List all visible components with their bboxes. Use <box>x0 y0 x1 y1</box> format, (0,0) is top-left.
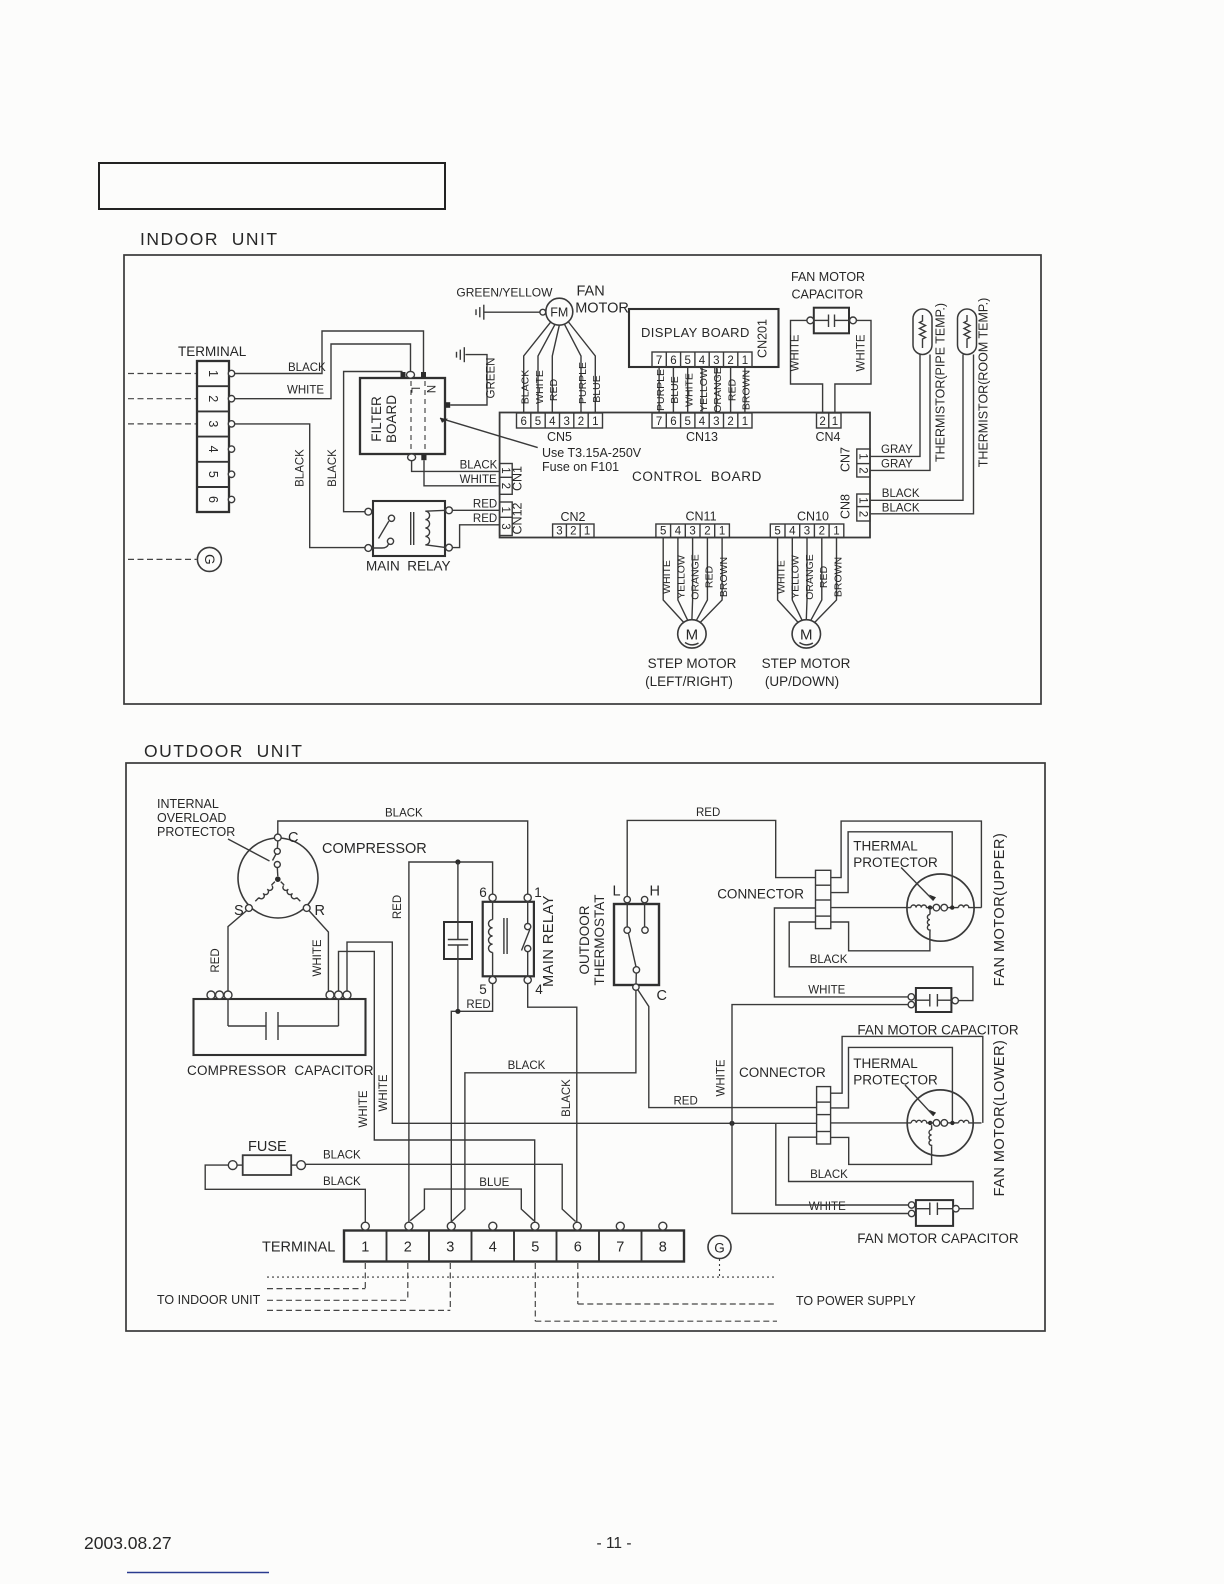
svg-text:CN1: CN1 <box>511 466 525 491</box>
svg-text:WHITE: WHITE <box>312 939 324 976</box>
wire BLACK compressor C to relay pin1 <box>278 821 528 894</box>
svg-text:INTERNAL: INTERNAL <box>157 797 219 811</box>
compressor capacitor C2 <box>187 991 374 1078</box>
svg-text:5: 5 <box>206 471 220 478</box>
relay coil core <box>410 512 412 545</box>
dashed row terminal1 to indoor <box>267 1288 365 1290</box>
dashed row terminal5 to power <box>535 1320 777 1322</box>
wire BLACK fuse to terminal1 <box>205 1165 365 1222</box>
svg-text:WHITE: WHITE <box>358 1090 370 1127</box>
svg-text:FM: FM <box>550 305 568 319</box>
svg-text:- 11 -: - 11 - <box>596 1535 631 1552</box>
relay switch contacts <box>388 515 394 521</box>
control board U1 <box>500 413 870 538</box>
svg-text:GRAY: GRAY <box>881 459 913 471</box>
dashed lead into G <box>128 558 197 560</box>
step motor M2 up/down <box>762 620 851 689</box>
svg-text:BLUE: BLUE <box>669 376 681 403</box>
fan motor capacitor C5 (lower) <box>857 1200 1019 1246</box>
wire lower connector pin3 to fan motor main <box>831 1122 908 1124</box>
svg-text:RED: RED <box>473 499 497 511</box>
svg-text:OVERLOAD: OVERLOAD <box>157 811 226 825</box>
wire RED terminal2 to relay pin6 <box>409 862 493 1223</box>
svg-text:6: 6 <box>670 355 676 367</box>
svg-text:(UP/DOWN): (UP/DOWN) <box>765 674 839 689</box>
pointer note to filter board <box>440 418 538 447</box>
svg-text:6: 6 <box>574 1240 582 1256</box>
compressor MC1 <box>234 830 427 919</box>
svg-text:3: 3 <box>206 420 220 427</box>
svg-text:TERMINAL: TERMINAL <box>262 1240 335 1256</box>
relay pin 6 <box>489 894 496 901</box>
fan motor capacitor C4 (upper) <box>857 988 1019 1038</box>
fuse F1 <box>228 1139 305 1175</box>
svg-text:CN4: CN4 <box>815 430 840 444</box>
pointer thermal protector lower <box>905 1085 934 1116</box>
wire lower connector pin4 to fan aux winding <box>831 1137 932 1164</box>
thermostat pin H <box>641 896 647 902</box>
svg-text:OUTDOOR UNIT: OUTDOOR UNIT <box>144 741 304 761</box>
capacitor terminals right <box>326 991 334 999</box>
wire BLACK terminal1 to filter N <box>235 331 424 374</box>
svg-text:2: 2 <box>819 526 825 538</box>
outdoor thermostat S1 <box>577 884 667 1005</box>
wire WHITE to lower fan capacitor <box>732 1123 908 1213</box>
wire upper connector pin2 to thermal protector <box>831 832 952 908</box>
svg-text:4: 4 <box>206 446 220 453</box>
terminal block TB1 (indoor) <box>178 344 247 512</box>
wire BLACK CN8-2 to room thermistor <box>870 355 974 514</box>
wire RED display2 to CN13-2 <box>730 367 732 413</box>
wire lower connector pin2 to thermal protector <box>831 1047 953 1123</box>
svg-text:RED: RED <box>466 999 490 1011</box>
svg-text:YELLOW: YELLOW <box>790 555 802 599</box>
relay coil <box>425 511 429 545</box>
connector CN5 <box>517 413 603 444</box>
svg-text:5: 5 <box>660 526 666 538</box>
svg-text:5: 5 <box>684 416 690 428</box>
dashed earth drop from G <box>719 1259 721 1277</box>
wire YELLOW CN11-4 <box>678 538 688 621</box>
filter junction square left-top <box>401 372 406 378</box>
wire RED thermostat switch to lower connector <box>638 990 817 1108</box>
svg-text:FAN MOTOR CAPACITOR: FAN MOTOR CAPACITOR <box>857 1231 1019 1246</box>
svg-text:BLACK: BLACK <box>882 502 920 514</box>
svg-text:2: 2 <box>578 416 584 428</box>
svg-text:INDOOR UNIT: INDOOR UNIT <box>140 229 279 249</box>
svg-text:PURPLE: PURPLE <box>577 362 589 404</box>
svg-text:WHITE: WHITE <box>534 370 546 404</box>
svg-text:2: 2 <box>206 395 220 402</box>
junction white distribution <box>729 1121 734 1126</box>
svg-text:3: 3 <box>713 416 719 428</box>
svg-text:BLACK: BLACK <box>385 808 423 820</box>
wire GREEN/YELLOW earth to FM <box>485 311 540 313</box>
terminal screws 1-8 <box>361 1222 369 1230</box>
junction aux tap <box>928 905 932 909</box>
svg-text:PROTECTOR: PROTECTOR <box>157 825 235 839</box>
svg-text:THERMAL: THERMAL <box>853 839 918 854</box>
wire BLACK upper connector pin4 to capacitor <box>789 922 973 1001</box>
wire fan lead RED CN5-4 <box>552 325 559 412</box>
wire GRAY CN7-1 to pipe thermistor <box>870 355 920 457</box>
svg-text:FAN MOTOR: FAN MOTOR <box>791 270 865 284</box>
svg-text:TO POWER SUPPLY: TO POWER SUPPLY <box>796 1294 916 1308</box>
wire WHITE to upper fan capacitor <box>732 1005 908 1124</box>
svg-text:CN8: CN8 <box>839 494 853 519</box>
wire RED CN11-2 <box>696 538 707 621</box>
svg-text:5: 5 <box>774 526 780 538</box>
connector CN8 <box>839 494 871 521</box>
step motor M1 left/right <box>645 620 737 689</box>
wire BLACK lower connector pin4 to capacitor <box>789 1137 974 1209</box>
svg-text:PROTECTOR: PROTECTOR <box>853 855 938 870</box>
svg-text:PURPLE: PURPLE <box>655 369 667 411</box>
svg-text:BLACK: BLACK <box>327 449 339 487</box>
wire fan lead WHITE CN5-5 <box>538 325 555 413</box>
svg-text:FAN: FAN <box>577 284 605 300</box>
svg-text:DISPLAY BOARD: DISPLAY BOARD <box>641 325 750 340</box>
junction capacitor to red <box>455 1009 460 1014</box>
connector CN2 <box>553 510 594 538</box>
wire WHITE cap to CN4-1 <box>835 320 871 413</box>
svg-text:7: 7 <box>656 416 662 428</box>
wire ORANGE display3 to CN13-3 <box>715 367 717 413</box>
svg-text:YELLOW: YELLOW <box>698 368 710 412</box>
fan motor capacitor C1 (indoor) <box>791 270 865 333</box>
svg-text:CN5: CN5 <box>547 430 572 444</box>
dashed drop terminal5 <box>534 1263 536 1321</box>
svg-text:WHITE: WHITE <box>790 334 802 371</box>
wire BLACK fuse to terminal6 <box>306 1164 576 1221</box>
display board connector strip <box>652 352 752 367</box>
compressor winding to S <box>255 882 275 902</box>
svg-text:BLACK: BLACK <box>323 1176 361 1188</box>
svg-text:CN7: CN7 <box>839 447 853 472</box>
svg-text:RED: RED <box>726 378 738 401</box>
svg-text:CN11: CN11 <box>685 510 716 524</box>
wire BLACK filter L-bottom to CN1-1 <box>412 461 499 472</box>
svg-text:BROWN: BROWN <box>833 557 845 597</box>
internal overload protector contacts <box>274 848 280 854</box>
svg-text:FAN MOTOR(LOWER): FAN MOTOR(LOWER) <box>992 1040 1008 1197</box>
dashed row terminal6 to power <box>578 1303 777 1305</box>
wire lower connector pin1 to fan motor right <box>831 1036 983 1123</box>
outdoor unit border <box>126 763 1045 1331</box>
svg-text:RED: RED <box>696 807 720 819</box>
wire WHITE display5 to CN13-5 <box>687 367 689 413</box>
svg-text:CN201: CN201 <box>756 319 770 358</box>
wire BROWN CN10-1 <box>815 538 837 623</box>
svg-text:BLACK: BLACK <box>561 1079 573 1117</box>
wire YELLOW display4 to CN13-4 <box>701 367 703 413</box>
svg-text:C: C <box>657 988 667 1004</box>
svg-text:THERMISTOR(ROOM TEMP.): THERMISTOR(ROOM TEMP.) <box>977 298 991 467</box>
wire fan lead PURPLE CN5-2 <box>565 324 582 412</box>
svg-text:4: 4 <box>699 416 706 428</box>
main relay K1 (indoor) <box>365 501 453 574</box>
terminal block TB2 (outdoor) <box>262 1222 684 1261</box>
svg-text:WHITE: WHITE <box>661 560 673 594</box>
svg-text:WHITE: WHITE <box>460 474 497 486</box>
header empty box <box>99 163 445 209</box>
svg-text:Fuse on F101: Fuse on F101 <box>542 460 619 474</box>
svg-text:H: H <box>649 884 659 900</box>
svg-text:M: M <box>800 627 813 644</box>
dashed leads into terminals 1-3 <box>128 373 196 375</box>
wire WHITE capacitor to fan motor capacitors (common) <box>347 942 817 1123</box>
svg-text:2: 2 <box>499 483 511 489</box>
svg-text:WHITE: WHITE <box>809 1201 846 1213</box>
svg-text:BLUE: BLUE <box>479 1177 509 1189</box>
svg-text:5: 5 <box>479 982 487 997</box>
svg-text:2: 2 <box>727 416 733 428</box>
svg-text:1: 1 <box>206 370 220 377</box>
wire BLACK CN8-1 to room thermistor <box>870 355 963 501</box>
svg-text:8: 8 <box>659 1240 667 1256</box>
junction pin2 feed <box>950 905 954 909</box>
svg-text:CONTROL BOARD: CONTROL BOARD <box>632 469 762 484</box>
svg-text:4: 4 <box>699 355 706 367</box>
connector CN4 <box>815 413 841 444</box>
svg-text:THERMISTOR(PIPE TEMP.): THERMISTOR(PIPE TEMP.) <box>934 303 948 462</box>
svg-text:BLACK: BLACK <box>882 488 920 500</box>
dashed drop terminal6 <box>577 1263 579 1304</box>
relay pin 5 <box>489 976 496 983</box>
svg-text:L: L <box>409 387 421 394</box>
svg-text:5: 5 <box>531 1240 539 1256</box>
svg-text:CN13: CN13 <box>686 430 718 444</box>
svg-text:RED: RED <box>548 378 560 401</box>
svg-text:G: G <box>202 554 217 565</box>
svg-text:YELLOW: YELLOW <box>675 555 687 599</box>
wire BLUE display6 to CN13-6 <box>672 367 674 413</box>
svg-text:WHITE: WHITE <box>287 385 324 397</box>
thermostat lever <box>628 933 636 967</box>
svg-text:WHITE: WHITE <box>716 1059 728 1096</box>
ground terminal G (indoor) <box>197 547 221 571</box>
svg-text:ORANGE: ORANGE <box>804 554 816 600</box>
svg-text:3: 3 <box>446 1240 454 1256</box>
pointer overload protector <box>228 839 270 861</box>
svg-text:TERMINAL: TERMINAL <box>178 344 247 359</box>
svg-text:RED: RED <box>473 513 497 525</box>
svg-text:STEP MOTOR: STEP MOTOR <box>648 656 737 671</box>
thermal protector contacts <box>930 907 933 909</box>
display board U2 <box>629 309 779 367</box>
svg-text:3: 3 <box>804 526 810 538</box>
svg-text:1: 1 <box>361 1240 369 1256</box>
svg-text:BLACK: BLACK <box>520 370 532 404</box>
wire BROWN CN11-1 <box>700 538 722 623</box>
footer blue rule <box>127 1572 269 1574</box>
wire WHITE filter N-bottom to CN1-2 <box>424 460 499 486</box>
filter pin L bottom (open) <box>408 454 416 461</box>
svg-text:1: 1 <box>719 526 725 538</box>
svg-text:WHITE: WHITE <box>378 1074 390 1111</box>
svg-text:G: G <box>714 1240 725 1255</box>
wire RED relay to CN12-1 <box>452 509 499 511</box>
svg-text:1: 1 <box>832 416 838 428</box>
wire WHITE capacitor to terminal5 <box>339 951 535 1222</box>
svg-text:MOTOR: MOTOR <box>575 301 629 317</box>
svg-text:RED: RED <box>674 1096 698 1108</box>
relay pin 4 <box>524 976 531 983</box>
svg-text:THERMOSTAT: THERMOSTAT <box>592 895 607 986</box>
svg-text:BROWN: BROWN <box>718 557 730 597</box>
svg-text:4: 4 <box>789 526 796 538</box>
svg-text:7: 7 <box>656 355 662 367</box>
wire RED relay to CN12-3 <box>452 525 499 548</box>
svg-text:COMPRESSOR CAPACITOR: COMPRESSOR CAPACITOR <box>187 1063 374 1078</box>
svg-text:2: 2 <box>856 467 868 473</box>
svg-text:GREEN/YELLOW: GREEN/YELLOW <box>456 286 553 300</box>
relay switch <box>527 901 529 923</box>
svg-text:2003.08.27: 2003.08.27 <box>84 1533 172 1553</box>
svg-text:3: 3 <box>499 523 511 529</box>
svg-text:BLACK: BLACK <box>460 460 498 472</box>
wire upper connector pin3 to fan motor main <box>831 907 907 909</box>
svg-text:FAN MOTOR CAPACITOR: FAN MOTOR CAPACITOR <box>857 1023 1019 1038</box>
svg-text:6: 6 <box>520 416 526 428</box>
svg-text:4: 4 <box>549 416 556 428</box>
dashed row terminal3 to indoor <box>267 1309 450 1311</box>
wire fan lead BLACK CN5-6 <box>524 322 551 413</box>
svg-text:2: 2 <box>727 355 733 367</box>
svg-text:ORANGE: ORANGE <box>712 367 724 413</box>
wire WHITE terminal2 to filter L <box>235 344 411 399</box>
svg-text:FILTER: FILTER <box>369 396 384 442</box>
connector CN10 <box>770 510 844 538</box>
fan motor M4 (lower) <box>907 1040 1008 1197</box>
compressor winding to R <box>281 882 301 902</box>
svg-text:5: 5 <box>684 355 690 367</box>
compressor terminal C <box>274 834 281 841</box>
svg-text:BLACK: BLACK <box>810 1169 848 1181</box>
wire WHITE upper connector pin3 to capacitor <box>774 908 908 997</box>
thermostat pin L <box>624 896 630 902</box>
svg-text:WHITE: WHITE <box>856 334 868 371</box>
wire GREEN filter board to earth <box>450 355 487 405</box>
connector CN13 <box>652 413 752 444</box>
svg-text:2: 2 <box>819 416 825 428</box>
svg-text:1: 1 <box>499 467 511 473</box>
compressor winding junction <box>275 876 281 882</box>
svg-text:BROWN: BROWN <box>741 370 753 410</box>
wire WHITE CN10-5 <box>778 538 799 623</box>
svg-text:6: 6 <box>479 885 487 900</box>
svg-text:FAN MOTOR(UPPER): FAN MOTOR(UPPER) <box>992 833 1008 987</box>
wire BLACK filter L to main relay <box>344 372 403 512</box>
wire PURPLE display7 to CN13-7 <box>658 367 660 413</box>
svg-text:COMPRESSOR: COMPRESSOR <box>322 841 427 857</box>
dashed run to power supply (earth row) <box>267 1276 777 1278</box>
svg-text:1: 1 <box>856 453 868 459</box>
wire fan lead BLUE CN5-1 <box>569 322 596 413</box>
wire ORANGE CN11-3 <box>691 538 694 620</box>
svg-text:2: 2 <box>856 511 868 517</box>
svg-text:WHITE: WHITE <box>775 560 787 594</box>
svg-text:CAPACITOR: CAPACITOR <box>792 288 864 302</box>
svg-text:4: 4 <box>675 526 682 538</box>
indoor unit border <box>124 255 1041 704</box>
fan motor M3 (upper) <box>907 833 1008 987</box>
svg-text:3: 3 <box>556 526 562 538</box>
compressor terminal R <box>303 905 310 912</box>
connector CN12 <box>499 502 525 536</box>
svg-text:BOARD: BOARD <box>384 395 399 443</box>
main winding right <box>958 905 981 908</box>
wire lower connector pin3 riser to capacitor <box>776 1123 909 1205</box>
svg-text:TO INDOOR UNIT: TO INDOOR UNIT <box>157 1293 261 1307</box>
capacitor element <box>228 1025 266 1027</box>
svg-text:7: 7 <box>616 1240 624 1256</box>
wire WHITE cap to CN4-2 <box>791 320 823 413</box>
filter ground square right <box>445 402 450 408</box>
svg-text:1: 1 <box>742 355 748 367</box>
svg-text:MAIN RELAY: MAIN RELAY <box>366 559 451 574</box>
svg-text:CN10: CN10 <box>797 510 829 524</box>
svg-text:GRAY: GRAY <box>881 444 913 456</box>
main relay K2 (outdoor) <box>479 885 557 997</box>
svg-text:BLACK: BLACK <box>295 449 307 487</box>
dashed row terminal2 to indoor <box>267 1299 408 1301</box>
svg-text:RED: RED <box>392 895 404 919</box>
junction red / run capacitor <box>455 859 460 864</box>
svg-text:FUSE: FUSE <box>248 1139 287 1155</box>
svg-text:3: 3 <box>563 416 569 428</box>
svg-text:1: 1 <box>499 506 511 512</box>
svg-text:2: 2 <box>704 526 710 538</box>
svg-text:4: 4 <box>489 1240 497 1256</box>
connector CN7 <box>839 447 871 477</box>
svg-text:3: 3 <box>689 526 695 538</box>
wire WHITE compressor R to capacitor <box>309 911 328 992</box>
svg-text:1: 1 <box>584 526 590 538</box>
svg-text:L: L <box>612 884 620 900</box>
run capacitor C3 <box>444 862 472 1011</box>
svg-text:RED: RED <box>818 565 830 588</box>
relay coil <box>492 901 494 919</box>
filter pin L top (open) <box>407 371 415 378</box>
wire BLUE terminal2 to terminal5 <box>410 1189 534 1221</box>
filter junction square N-top <box>421 372 426 378</box>
wire GRAY CN7-2 to pipe thermistor <box>870 355 930 471</box>
svg-text:BLACK: BLACK <box>323 1150 361 1162</box>
wire BLACK thermostat C to terminal3 <box>452 990 636 1221</box>
svg-text:WHITE: WHITE <box>808 984 845 996</box>
wire BROWN display1 to CN13-1 <box>744 367 746 413</box>
svg-text:RED: RED <box>210 948 222 972</box>
svg-text:N: N <box>424 385 436 393</box>
connector CN1 <box>499 464 525 495</box>
svg-text:M: M <box>686 627 699 644</box>
wire ORANGE CN10-3 <box>805 538 808 620</box>
svg-text:1: 1 <box>856 497 868 503</box>
svg-text:BLUE: BLUE <box>591 375 603 402</box>
svg-text:2: 2 <box>404 1240 412 1256</box>
svg-text:CN12: CN12 <box>511 502 525 534</box>
dashed drop terminal2 <box>407 1263 409 1300</box>
wire YELLOW CN10-4 <box>792 538 802 621</box>
svg-text:2: 2 <box>570 526 576 538</box>
relay pin 1 <box>524 894 531 901</box>
dashed drop terminal3 <box>449 1263 451 1310</box>
svg-text:THERMAL: THERMAL <box>853 1056 918 1071</box>
compressor terminal S <box>246 905 253 912</box>
aux winding <box>929 910 931 915</box>
thermistor RT2 room temp <box>958 298 991 467</box>
